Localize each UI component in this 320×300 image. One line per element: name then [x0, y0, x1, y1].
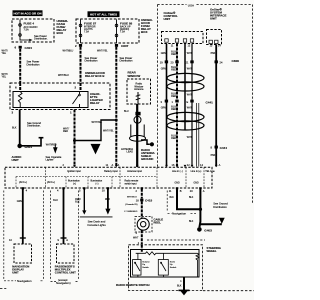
svg-text:WHEEL: WHEEL	[207, 249, 217, 253]
label OnStar CONTROL UNIT	[164, 11, 179, 21]
svg-text:GND: GND	[194, 183, 199, 185]
svg-text:PNK: PNK	[211, 53, 216, 55]
svg-text:Line in (+): Line in (+)	[191, 170, 202, 173]
ground G403	[197, 227, 202, 232]
wire BLK relay to G401	[19, 110, 21, 146]
option brackets (navigation / except navigation)	[4, 191, 79, 280]
svg-text:HOT IN ACC OR ON: HOT IN ACC OR ON	[13, 12, 41, 16]
svg-text:Distribution: Distribution	[27, 62, 41, 66]
illumination wire RED with arrow	[107, 189, 109, 209]
label UNDER-DASH FUSE/RELAY BOX	[57, 19, 69, 35]
audio unit input labels row 1	[67, 170, 215, 173]
svg-text:C404: C404	[25, 46, 33, 50]
svg-text:TEL Line: TEL Line	[205, 170, 215, 173]
cable reel	[135, 217, 152, 233]
svg-text:Distribution: Distribution	[120, 59, 134, 63]
resistor (right)	[196, 253, 199, 277]
fuse F57	[80, 20, 82, 44]
wire LT GRN/RED	[141, 201, 143, 218]
svg-text:WHT/YEL: WHT/YEL	[97, 50, 108, 53]
nav wire 1 (GRN)	[22, 189, 24, 238]
svg-text:Illumination: Illumination	[68, 180, 80, 183]
radio window antenna (dashed box)	[127, 79, 151, 104]
antenna shield ground	[141, 140, 150, 144]
wire colour labels (mid)	[171, 93, 192, 98]
audio unit labels row 2	[19, 180, 199, 186]
wire colour labels (upper)	[161, 52, 216, 57]
wire PNK (interface)	[215, 45, 217, 167]
svg-text:WHT/YEL: WHT/YEL	[103, 130, 114, 133]
connector pins on audio unit bottom edge	[22, 187, 24, 189]
connector row 3/1/E C441	[165, 100, 194, 103]
svg-text:A: A	[203, 189, 205, 193]
see power distribution arrow	[20, 39, 30, 41]
wire shield drain	[184, 44, 186, 131]
svg-text:Navigation: Navigation	[172, 212, 187, 216]
svg-text:E: E	[187, 100, 189, 104]
arrow to see cigarette lighter	[54, 144, 56, 148]
svg-text:WHT/YEL: WHT/YEL	[92, 121, 103, 124]
svg-text:7.5A: 7.5A	[84, 31, 89, 34]
radio remote switch unit box	[131, 250, 200, 278]
svg-text:Radio remote: Radio remote	[125, 180, 140, 183]
svg-text:RED: RED	[171, 138, 176, 140]
wire BLU/RED (onstar)	[176, 44, 178, 167]
relay inner body	[13, 92, 88, 108]
label REAR WINDOW	[128, 71, 141, 78]
svg-text:YEL: YEL	[2, 52, 7, 55]
svg-text:RADIO REMOTE SWITCH: RADIO REMOTE SWITCH	[116, 283, 150, 287]
wire branch to cigarette lighter	[20, 138, 41, 146]
seek up switch	[158, 260, 168, 276]
wire WHT/BLU fuse57	[80, 47, 82, 83]
svg-text:WHT: WHT	[133, 236, 139, 239]
internal top rail with resistor	[136, 252, 198, 255]
svg-text:B: B	[180, 189, 182, 193]
svg-text:WHT/BLU: WHT/BLU	[63, 50, 74, 53]
svg-text:WINDOW: WINDOW	[128, 74, 141, 78]
svg-text:REEL: REEL	[154, 220, 162, 224]
connector C404 pin 6	[15, 46, 33, 50]
svg-text:Battery input: Battery input	[104, 170, 118, 173]
wire GRN (onstar)	[166, 44, 168, 167]
svg-text:GRN: GRN	[161, 69, 166, 71]
nav wire 2 (BLU)	[63, 189, 65, 238]
ground wire from remote switch	[183, 277, 185, 290]
svg-text:RED: RED	[63, 130, 68, 133]
svg-text:(−): (−)	[96, 184, 99, 186]
bracket line + see dash and console lights	[80, 216, 113, 218]
wire below cable reel	[141, 230, 143, 244]
svg-text:RED: RED	[171, 70, 176, 72]
svg-text:Distribution: Distribution	[85, 59, 99, 63]
shielded pair below C441	[197, 103, 199, 167]
antenna connector	[135, 112, 140, 116]
pins above audio unit	[63, 163, 120, 167]
svg-text:HOT AT ALL TIMES: HOT AT ALL TIMES	[90, 13, 117, 17]
bottom pins 10 / 9 A	[9, 238, 68, 242]
svg-text:WHT: WHT	[187, 95, 193, 97]
label AUDIO UNIT	[12, 155, 23, 162]
svg-text:C807: C807	[121, 44, 129, 48]
svg-text:BLK: BLK	[75, 202, 80, 204]
svg-text:RED: RED	[171, 109, 176, 111]
pin numbers under onstar units	[171, 44, 222, 47]
svg-text:UNIT: UNIT	[12, 158, 19, 162]
svg-text:BOX: BOX	[57, 31, 64, 35]
radio pin row 16/12/14/A	[172, 163, 221, 167]
radio remote switch wire (WHT/BLU)	[141, 189, 143, 199]
svg-text:Illumination: Illumination	[91, 180, 103, 183]
svg-text:C441: C441	[206, 101, 214, 105]
svg-text:switch input: switch input	[125, 183, 137, 186]
fuse F58	[116, 20, 118, 44]
svg-text:YEL: YEL	[2, 76, 7, 79]
svg-text:Distribution.: Distribution.	[27, 124, 41, 128]
relay entry wires	[20, 83, 80, 92]
svg-text:GRN: GRN	[17, 201, 22, 203]
svg-text:UNIT: UNIT	[12, 271, 19, 275]
relay contact	[73, 92, 80, 108]
internal bottom rail	[136, 275, 198, 277]
svg-text:RELAY: RELAY	[90, 101, 100, 105]
svg-text:BLK: BLK	[189, 197, 194, 199]
steering wheel dashed enclosure	[129, 245, 203, 291]
svg-text:Lighter: Lighter	[46, 158, 54, 162]
wire WHT/YEL from fuse 4	[19, 49, 21, 83]
svg-text:BLK: BLK	[177, 285, 182, 288]
svg-text:USA: USA	[188, 4, 194, 8]
svg-text:BLU: BLU	[53, 200, 58, 202]
svg-text:7.5A: 7.5A	[120, 31, 125, 34]
svg-text:WHT/BLU: WHT/BLU	[58, 74, 69, 77]
svg-text:Ignition input: Ignition input	[67, 170, 81, 173]
svg-text:(+): (+)	[73, 184, 76, 186]
passenger's multiplex control unit	[57, 244, 75, 263]
connector C415 pin 18	[140, 199, 143, 202]
label OnStar SYSTEM INTERFACE UNIT	[210, 8, 226, 21]
svg-text:RED: RED	[171, 54, 176, 56]
twisted pair symbol group 2	[167, 112, 204, 121]
svg-text:7.5A: 7.5A	[24, 28, 29, 31]
svg-text:Antenna input: Antenna input	[127, 170, 142, 173]
connector C807	[75, 44, 129, 48]
page border dashes bottom right	[203, 290, 254, 292]
svg-text:CONTROL UNIT: CONTROL UNIT	[55, 271, 76, 275]
banner HOT AT ALL TIMES	[88, 11, 120, 17]
connector pins on audio unit top edge	[73, 165, 76, 167]
svg-text:LEAD: LEAD	[126, 151, 133, 154]
USA option dashed border	[158, 5, 253, 205]
svg-text:BLK: BLK	[170, 197, 175, 199]
OnStar control unit (dashed box)	[162, 32, 204, 44]
svg-text:A: A	[219, 163, 221, 167]
wire BLK (radio GND 11 B)	[177, 189, 200, 209]
svg-text:C415: C415	[145, 199, 153, 203]
label UNDER-HOOD FUSE/RELAY BOX	[141, 18, 153, 34]
illumination wire RED/BLK with arrow	[83, 189, 85, 211]
relay pin labels	[12, 86, 77, 115]
svg-text:BLU: BLU	[124, 110, 129, 113]
svg-text:Switch: Switch	[170, 266, 177, 269]
navigation display unit	[14, 244, 32, 263]
wire WHT/YEL fuse58	[115, 47, 117, 167]
svg-text:GRN: GRN	[161, 108, 166, 110]
svg-text:A: A	[112, 163, 114, 167]
branch to arrow (see ground distribution)	[200, 223, 221, 225]
label UNDER-HOOD RELAY BOX B	[85, 71, 105, 78]
dashed link line	[147, 239, 205, 241]
svg-text:Navigation: Navigation	[17, 279, 32, 283]
svg-text:Distribution: Distribution	[213, 205, 227, 209]
wire colour labels (lower)	[171, 136, 215, 157]
fuse 4 value label	[24, 22, 38, 32]
svg-text:UNIT: UNIT	[164, 17, 171, 21]
audio unit (long dashed box)	[5, 167, 212, 188]
label CIGARETTE LIGHTER RELAY	[90, 92, 104, 105]
svg-text:Antenna: Antenna	[134, 88, 144, 91]
OnStar system interface unit (dashed box)	[207, 30, 222, 45]
svg-text:C608: C608	[232, 59, 240, 63]
wire WHT/RED relay output	[74, 110, 76, 167]
svg-text:(ACC+): (ACC+)	[19, 181, 27, 184]
label RADIO REMOTE SWITCH	[116, 283, 150, 287]
arrow down (to next circuit)	[91, 144, 101, 155]
twisted pair symbol group 1	[167, 73, 204, 82]
internal dividers	[16, 176, 157, 178]
svg-text:Switch: Switch	[142, 266, 149, 269]
svg-text:WHT/BLU: WHT/BLU	[127, 196, 137, 198]
svg-text:BLK: BLK	[12, 126, 17, 129]
fuse F4	[19, 20, 21, 41]
wire BLK (radio GND 20 A) to G403	[199, 189, 200, 227]
svg-text:UNIT: UNIT	[210, 17, 217, 21]
svg-text:A: A	[66, 238, 68, 242]
svg-text:GND: GND	[175, 183, 180, 185]
antenna symbol	[136, 92, 141, 104]
svg-text:WHT: WHT	[187, 69, 193, 71]
svg-text:GRN: GRN	[161, 53, 166, 55]
svg-text:RELAY BOX B: RELAY BOX B	[85, 74, 104, 78]
svg-text:BOX: BOX	[141, 30, 148, 34]
ground G401	[17, 144, 22, 149]
svg-text:RED: RED	[171, 96, 176, 98]
svg-text:WHT: WHT	[187, 53, 193, 55]
svg-text:BLK: BLK	[189, 221, 194, 223]
svg-text:GROUND: GROUND	[141, 157, 153, 161]
svg-text:LT GRN/RED: LT GRN/RED	[124, 211, 137, 213]
svg-text:WHT: WHT	[187, 108, 193, 110]
svg-text:WHT: WHT	[187, 137, 193, 139]
svg-text:Navigation): Navigation)	[56, 281, 71, 285]
banner HOT IN ACC OR ON	[13, 10, 43, 16]
navigation option label (right)	[166, 191, 168, 212]
svg-text:A: A	[118, 163, 120, 167]
connector row 19/20/21/24 C608	[165, 60, 218, 63]
pins below audio unit	[26, 189, 205, 193]
svg-text:Line in (−): Line in (−)	[172, 170, 183, 173]
svg-text:(ACC+): (ACC+)	[47, 181, 55, 184]
wire WHT (onstar)	[191, 44, 193, 104]
svg-text:(Canada 28): (Canada 28)	[125, 204, 137, 206]
svg-text:C444: C444	[220, 146, 228, 150]
svg-text:G403: G403	[204, 229, 212, 233]
svg-text:Console Lights: Console Lights	[87, 223, 106, 227]
volume up switch	[133, 260, 141, 276]
under-dash fuse/relay box (FUSE 4)	[12, 19, 54, 42]
svg-text:Distribution.: Distribution.	[34, 37, 48, 41]
svg-text:RED: RED	[105, 199, 110, 201]
cigarette lighter relay (dashed enclosure)	[10, 83, 110, 110]
junction and crossover wires	[73, 139, 76, 142]
connector C444 pin 8	[215, 146, 218, 149]
ground symbol G404	[179, 289, 190, 291]
svg-text:PNK: PNK	[211, 155, 216, 157]
relay coil	[18, 92, 22, 108]
under-hood fuse/relay box (FUSE 57 / FUSE 58)	[76, 19, 139, 43]
